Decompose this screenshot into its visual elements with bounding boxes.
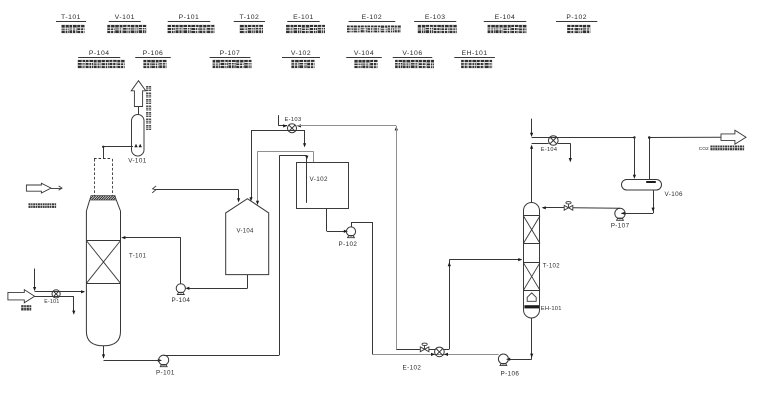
reflux drum V-106 — [622, 180, 662, 191]
svg-text:E-101: E-101 — [293, 14, 314, 21]
mixing tank V-104 — [226, 199, 269, 275]
V-101 vent stem — [138, 107, 140, 115]
stub feed from above into E-101 line — [34, 269, 36, 290]
E-101 drain leg — [73, 296, 75, 312]
svg-text:V-101: V-101 — [115, 14, 135, 21]
secondary exchanger E-103 — [288, 124, 297, 133]
P-102 discharge to E-102 — [351, 222, 353, 227]
V-106 internal weir mark — [646, 181, 656, 183]
stub feed from above onto E-104 line — [531, 119, 533, 136]
reflux valve — [564, 205, 568, 210]
gray header feeding V-104 and V-102 — [258, 151, 314, 153]
svg-text:P-102: P-102 — [339, 241, 358, 248]
svg-text:P-107: P-107 — [220, 50, 241, 57]
dip pipe into V-102 — [306, 157, 308, 203]
line tower top to V-101 — [103, 147, 105, 159]
svg-text:EH-101: EH-101 — [541, 306, 562, 312]
flue gas block arrow — [8, 290, 35, 303]
svg-text:P-106: P-106 — [501, 371, 520, 378]
T-101 shell — [86, 211, 120, 346]
svg-text:E-103: E-103 — [285, 117, 302, 123]
T-102 distributor house symbol — [527, 293, 536, 301]
note lean amine from system — [29, 203, 33, 208]
svg-text:V-106: V-106 — [665, 191, 684, 198]
svg-text:T-102: T-102 — [543, 264, 561, 270]
drop into reflux drum V-106 — [633, 136, 635, 138]
svg-text:V-102: V-102 — [310, 176, 329, 183]
note flue gas — [21, 305, 26, 310]
valve on E-102 inlet — [420, 347, 424, 352]
rich amine pump P-101 — [159, 355, 169, 365]
overhead condenser E-104 — [549, 136, 559, 146]
P-107 discharge reflux line with valve — [573, 207, 620, 210]
absorber feed pump P-104 — [176, 284, 185, 293]
line with break symbol into V-104 — [152, 186, 156, 193]
rich phase pump P-102 — [346, 227, 355, 236]
svg-text:P-101: P-101 — [179, 14, 200, 21]
T-101 demister hatched band — [90, 196, 117, 200]
block arrow CO2 product to stack — [721, 130, 746, 144]
svg-text:T-102: T-102 — [239, 14, 259, 21]
T-101 bottoms line — [103, 346, 105, 358]
lean pump P-106 — [498, 354, 508, 364]
V-102 bottom outlet to P-102 — [326, 208, 328, 231]
svg-text:V-104: V-104 — [354, 50, 374, 57]
svg-text:V-102: V-102 — [291, 50, 311, 57]
svg-text:P-107: P-107 — [611, 222, 630, 229]
T-102 upper packing — [523, 215, 540, 217]
demister arrows inside V-101 — [134, 144, 137, 147]
T-102 overhead vapor line to E-104 — [531, 146, 533, 202]
block arrow lean amine from system — [26, 183, 51, 193]
T-102 lower packing — [523, 262, 540, 264]
cooler E-101 — [52, 290, 60, 298]
stub into E-103 — [278, 115, 280, 126]
flue gas line through cooler — [35, 296, 74, 298]
tail-gas drum V-101 — [132, 115, 145, 157]
condenser pass line to V-106 — [532, 137, 635, 139]
CO2 product gas line — [649, 138, 651, 180]
hot side line with valve — [396, 349, 420, 351]
svg-text:E-102: E-102 — [362, 14, 383, 21]
P-101 discharge riser to V-102 — [164, 355, 280, 357]
T-101 shoulder — [86, 200, 89, 211]
reflux pump P-107 — [615, 208, 625, 218]
V-104 bottom outlet to P-104 — [247, 275, 249, 289]
svg-text:V-104: V-104 — [237, 229, 255, 235]
lean/rich exchanger cold side line — [372, 354, 499, 356]
svg-text:E-104: E-104 — [495, 14, 516, 21]
stripper column T-102 shell — [524, 203, 540, 319]
svg-text:T-101: T-101 — [129, 254, 147, 260]
T-102 bottoms to P-106 — [531, 318, 533, 359]
E-102 hot outlet riser to T-102 feed — [444, 349, 449, 351]
pump P-104 discharge to tower top feed — [180, 238, 182, 284]
svg-text:E-101: E-101 — [44, 299, 59, 305]
cooled gas line into tower — [35, 291, 84, 293]
T-101 packing bed (X section) — [86, 240, 120, 242]
E-104 condensate drain — [558, 143, 571, 145]
svg-text:P-104: P-104 — [89, 50, 110, 57]
E-103 outlet long line to E-102 valve leg — [297, 125, 397, 127]
svg-text:V-106: V-106 — [402, 50, 422, 57]
svg-text:E-103: E-103 — [425, 14, 446, 21]
svg-text:CO2: CO2 — [699, 146, 709, 152]
vent block arrow (tail gas to stack) — [131, 81, 146, 107]
svg-text:P-106: P-106 — [143, 50, 164, 57]
svg-text:EH-101: EH-101 — [462, 50, 488, 57]
E-103 shell side line to V-104 and V-102 — [251, 130, 305, 132]
exchanger E-102 — [435, 347, 445, 357]
svg-text:T-101: T-101 — [61, 14, 81, 21]
svg-text:P-102: P-102 — [566, 14, 587, 21]
absorber column T-101 neck (dashed wash section) — [94, 159, 96, 196]
vertical note: tail gas back to flue duct — [146, 86, 151, 91]
phase separator V-102 — [297, 163, 349, 209]
electric heater EH-101 element — [524, 305, 539, 308]
V-106 outlet to P-107 — [653, 190, 655, 213]
svg-text:V-101: V-101 — [128, 158, 147, 165]
svg-text:P-104: P-104 — [172, 297, 191, 304]
small open arrowhead — [59, 186, 62, 190]
svg-text:E-104: E-104 — [541, 147, 557, 153]
svg-text:E-102: E-102 — [403, 365, 422, 372]
svg-text:P-101: P-101 — [156, 370, 175, 377]
